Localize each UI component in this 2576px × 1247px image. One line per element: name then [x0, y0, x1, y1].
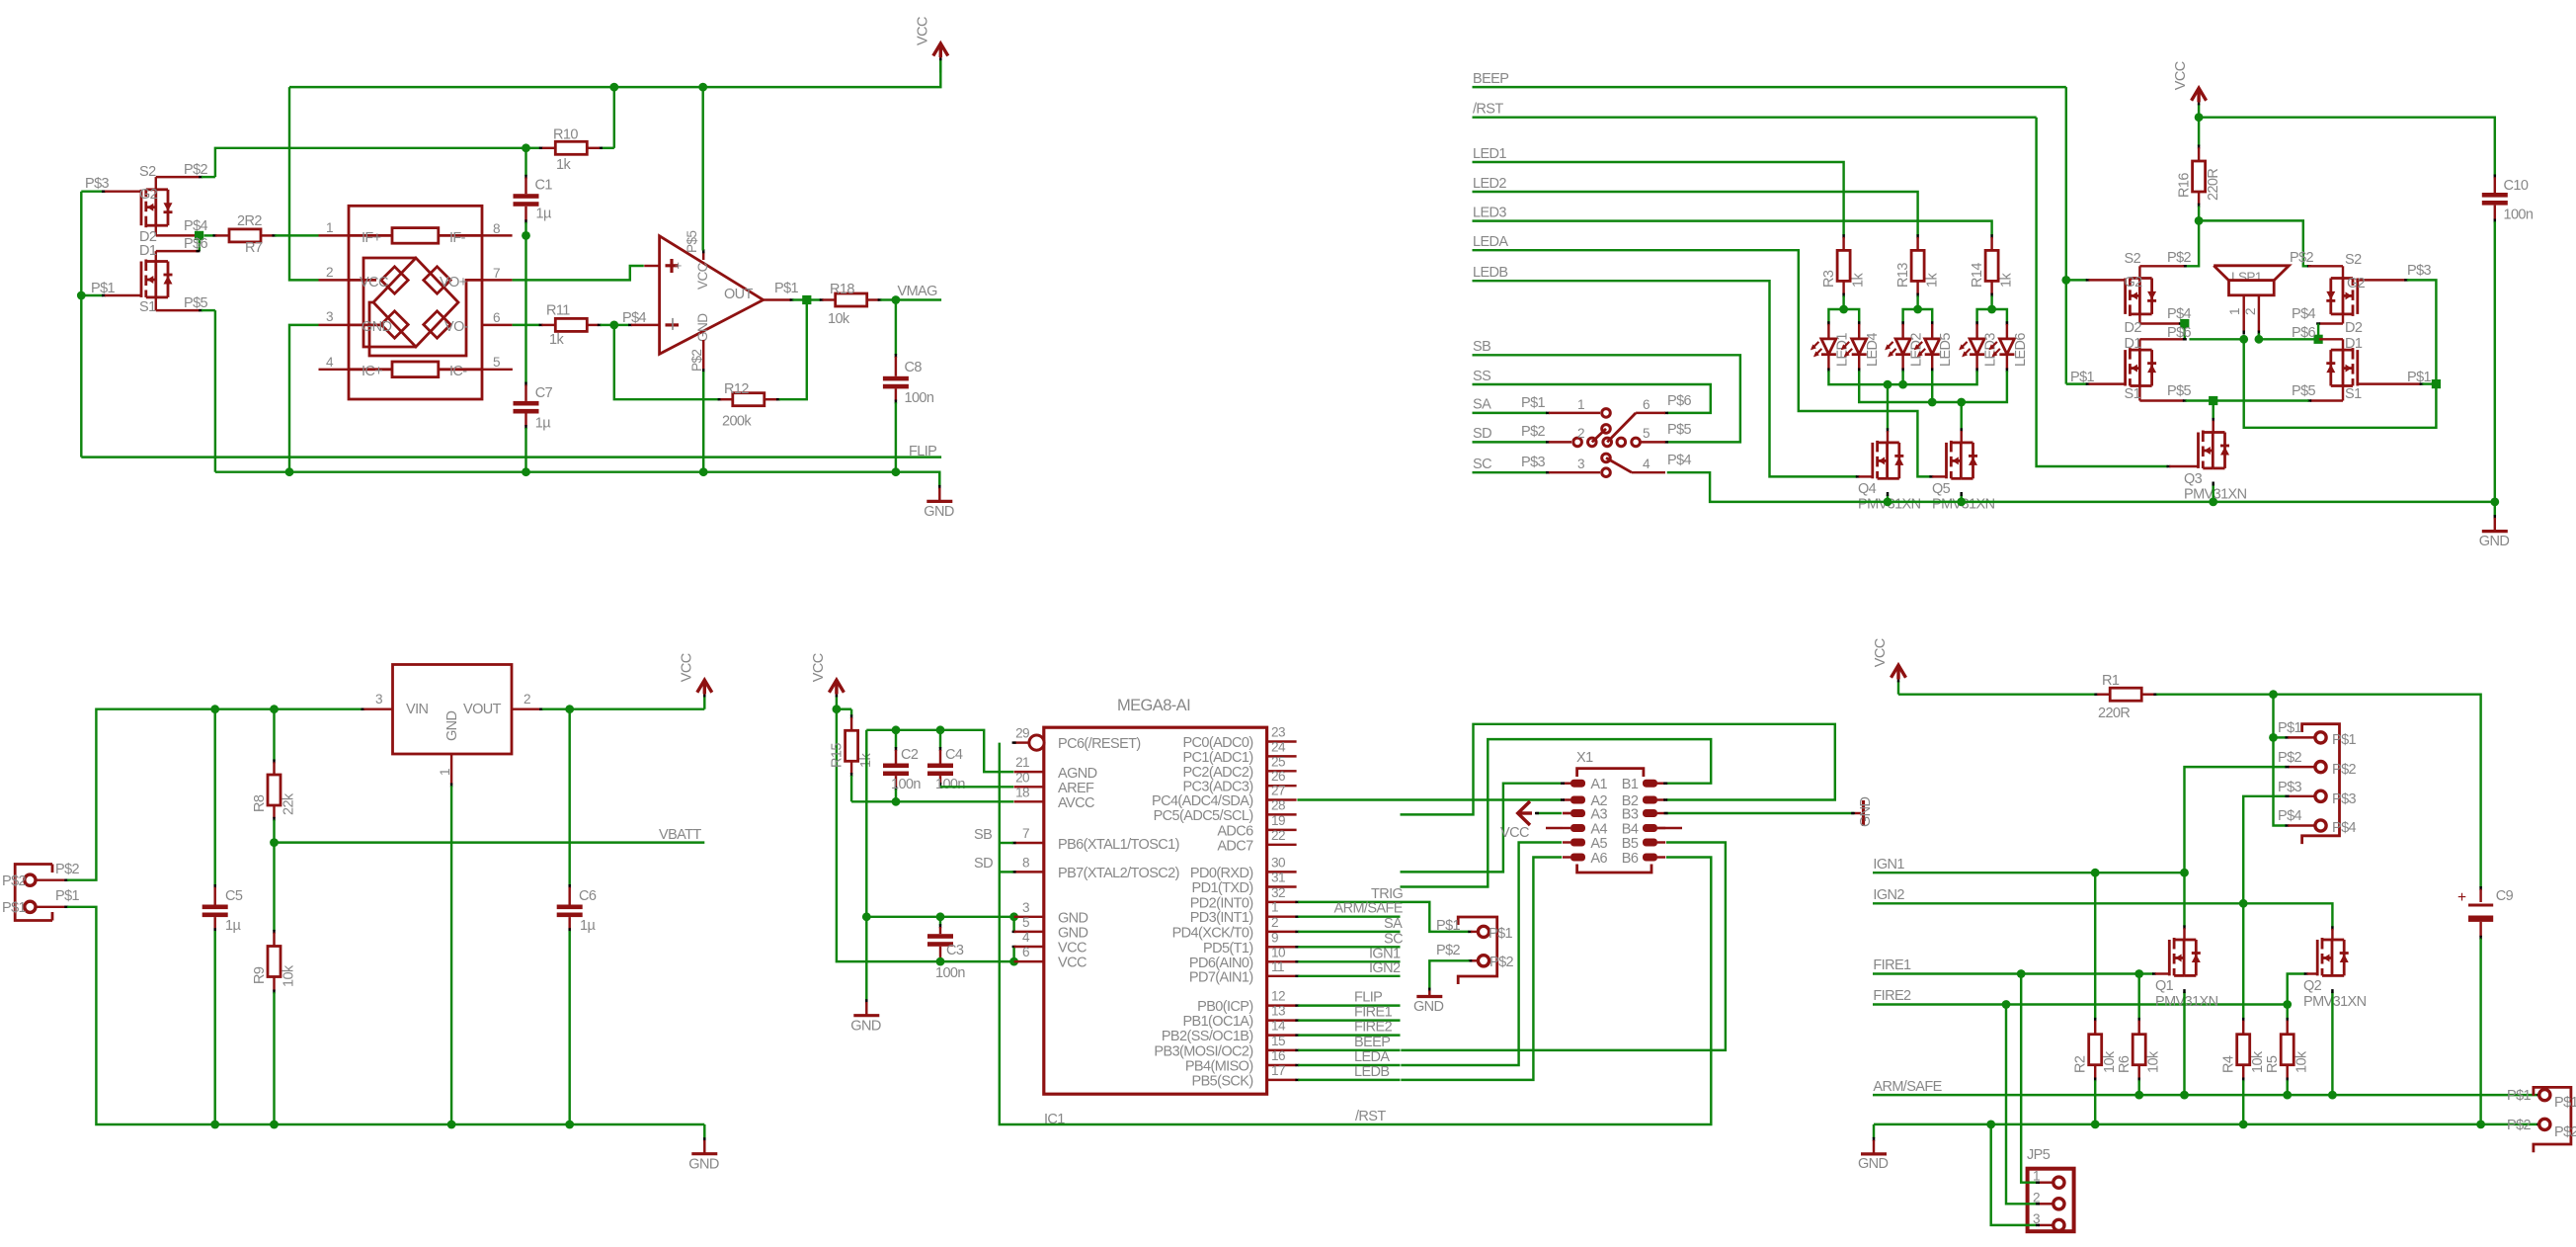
junction	[1839, 305, 1848, 314]
junction	[447, 1121, 456, 1129]
svg-text:P$4: P$4	[622, 310, 647, 326]
svg-text:P$1: P$1	[1521, 395, 1546, 411]
svg-text:P$1: P$1	[1436, 918, 1461, 934]
wire S2/R10 net	[215, 87, 614, 177]
svg-text:S1: S1	[2345, 386, 2362, 402]
svg-text:3: 3	[1577, 457, 1584, 471]
resistor R9	[252, 843, 297, 1124]
svg-text:PMV31XN: PMV31XN	[2155, 994, 2218, 1010]
svg-text:2: 2	[2243, 308, 2258, 315]
connector output P$1/P$2	[2507, 1087, 2576, 1152]
wire op-amp GND to rail	[702, 372, 704, 472]
svg-text:100n: 100n	[891, 777, 921, 792]
svg-text:21: 21	[1015, 755, 1029, 770]
svg-text:PC1(ADC1): PC1(ADC1)	[1182, 750, 1252, 766]
junction	[2017, 969, 2026, 978]
junction	[833, 705, 842, 713]
wire GND net bottom	[1874, 1123, 2540, 1125]
transistor pair right lower	[2214, 325, 2432, 402]
wire op-amp - input	[614, 310, 660, 326]
resistor R14	[1970, 237, 2015, 309]
wire IGN2 net	[1873, 887, 2332, 930]
svg-text:P$2: P$2	[1521, 424, 1546, 440]
svg-text:P$2: P$2	[2278, 750, 2302, 766]
svg-text:VMAG: VMAG	[898, 284, 938, 299]
switch S1 DPDT	[1521, 393, 1692, 477]
junction	[2239, 335, 2248, 344]
svg-text:GND: GND	[362, 319, 392, 335]
LED LED6	[1988, 321, 2028, 372]
svg-text:GND: GND	[695, 313, 710, 342]
svg-text:P$2: P$2	[2554, 1124, 2576, 1140]
wire AVCC row	[851, 800, 1013, 802]
wire Q3 source	[2212, 482, 2214, 502]
power VCC symbol power section	[679, 653, 712, 708]
svg-text:P$3: P$3	[85, 176, 110, 192]
svg-text:3: 3	[1022, 900, 1029, 915]
svg-text:+: +	[2457, 889, 2466, 906]
wire FLIP rail	[81, 444, 941, 459]
svg-text:27: 27	[1271, 784, 1285, 798]
junction	[2283, 1091, 2292, 1100]
junction	[2490, 498, 2499, 507]
svg-text:4: 4	[1643, 457, 1650, 471]
junction	[565, 1121, 574, 1129]
junction	[270, 838, 279, 847]
svg-text:Q2: Q2	[2303, 978, 2322, 994]
svg-text:LED2: LED2	[1473, 176, 1506, 192]
svg-text:SB: SB	[1473, 339, 1490, 355]
wire Q1 drain lead	[2183, 873, 2185, 940]
svg-text:PD0(RXD): PD0(RXD)	[1190, 866, 1253, 881]
ground GND symbol MCU	[850, 986, 881, 1034]
svg-text:PD2(INT0): PD2(INT0)	[1190, 895, 1253, 911]
svg-text:8: 8	[1022, 855, 1029, 870]
wire TRIG stub	[1295, 886, 1403, 902]
svg-text:R5: R5	[2265, 1055, 2281, 1073]
speaker LSP	[2214, 266, 2289, 335]
junction	[2255, 335, 2264, 344]
wire P$4 to GND rail	[1667, 472, 2495, 502]
connector header P$1-P$4	[2278, 720, 2357, 844]
junction	[210, 705, 219, 713]
svg-text:P$2: P$2	[2290, 250, 2314, 266]
wire JP5 pin2	[2006, 1005, 2040, 1205]
junction	[2432, 379, 2441, 388]
svg-text:FIRE2: FIRE2	[1354, 1020, 1393, 1036]
svg-text:GND: GND	[2479, 534, 2510, 549]
svg-text:LEDA: LEDA	[1354, 1049, 1390, 1065]
wire right pair S2 to R16	[2199, 220, 2343, 266]
wire P$2 to GND	[1429, 960, 1469, 991]
svg-text:A3: A3	[1590, 807, 1607, 823]
svg-text:VCC: VCC	[811, 653, 827, 682]
wire SC stub	[1295, 931, 1403, 947]
svg-text:FLIP: FLIP	[909, 444, 936, 459]
svg-text:G2: G2	[2125, 275, 2143, 291]
svg-text:P$3: P$3	[1521, 455, 1546, 470]
transistor pair S1/S2 lower	[81, 176, 215, 315]
svg-text:P$1: P$1	[2507, 1088, 2532, 1104]
svg-text:PC5(ADC5/SCL): PC5(ADC5/SCL)	[1154, 808, 1253, 824]
wire JP5 pin3	[1991, 1124, 2040, 1225]
svg-text:GND: GND	[688, 1156, 719, 1172]
svg-text:R3: R3	[1821, 270, 1837, 288]
svg-text:200k: 200k	[722, 414, 752, 430]
svg-text:P$5: P$5	[1667, 422, 1692, 438]
wire header P$1 column	[2274, 695, 2290, 826]
wire LEDB stub	[1295, 1064, 1400, 1080]
svg-text:S2: S2	[139, 164, 156, 180]
wire LEDA stub	[1295, 1049, 1400, 1065]
svg-text:C7: C7	[535, 385, 553, 401]
svg-text:28: 28	[1271, 797, 1285, 812]
LED LED5	[1914, 321, 1955, 372]
svg-text:SC: SC	[1384, 931, 1403, 947]
wire B5 to BEEP	[1401, 843, 1726, 1050]
svg-text:VO-: VO-	[444, 319, 469, 335]
junction	[2269, 733, 2278, 742]
connector P$1/P$2 MCU	[1436, 917, 1514, 984]
wire /RST net	[1000, 743, 1712, 1124]
svg-text:P$4: P$4	[2332, 820, 2357, 836]
svg-text:Q3: Q3	[2184, 471, 2203, 487]
svg-text:VCC: VCC	[1058, 941, 1087, 956]
junction	[1884, 380, 1892, 389]
wire R12 to output	[779, 300, 807, 400]
svg-text:PD4(XCK/T0): PD4(XCK/T0)	[1172, 925, 1253, 941]
svg-text:Q5: Q5	[1932, 481, 1951, 497]
svg-text:1: 1	[438, 769, 452, 776]
wire LED anode pair	[1903, 309, 1933, 324]
svg-text:P$3: P$3	[2407, 263, 2432, 279]
transistor Q3 PMV31XN	[2184, 431, 2247, 503]
wire LED group A cathodes	[1828, 371, 1976, 384]
svg-text:P$1: P$1	[55, 888, 80, 904]
svg-text:29: 29	[1015, 726, 1029, 741]
svg-text:A1: A1	[1590, 777, 1607, 792]
svg-text:R9: R9	[252, 966, 268, 984]
transistor Q1 PMV31XN	[2155, 938, 2218, 1010]
svg-text:PC0(ADC0): PC0(ADC0)	[1182, 735, 1252, 751]
transistor Q2 PMV31XN	[2303, 938, 2367, 1010]
LED LED1	[1811, 321, 1851, 372]
wire pin30 to A1	[1401, 784, 1566, 873]
svg-text:P$2: P$2	[2167, 250, 2192, 266]
junction	[2091, 1121, 2100, 1129]
wire B3 to GND	[1664, 796, 1874, 827]
junction	[2002, 1000, 2011, 1009]
svg-text:10k: 10k	[2294, 1050, 2310, 1073]
junction	[1986, 1121, 1995, 1129]
svg-text:SD: SD	[1473, 426, 1491, 442]
wire VCC to R1	[1898, 693, 2111, 695]
svg-text:VCC: VCC	[679, 653, 694, 682]
junction	[802, 295, 811, 304]
svg-text:P$3: P$3	[2332, 791, 2357, 807]
svg-text:IF-: IF-	[449, 230, 466, 246]
svg-text:OUT: OUT	[724, 287, 754, 302]
ground GND symbol	[924, 472, 954, 520]
junction	[699, 467, 708, 476]
junction	[892, 467, 901, 476]
svg-text:23: 23	[1271, 725, 1285, 740]
svg-text:P$1: P$1	[774, 281, 799, 296]
svg-text:PD7(AIN1): PD7(AIN1)	[1189, 969, 1253, 985]
svg-text:8: 8	[493, 221, 500, 236]
junction	[609, 83, 618, 92]
svg-text:7: 7	[493, 266, 500, 281]
svg-text:1k: 1k	[549, 332, 564, 348]
junction	[2134, 969, 2143, 978]
svg-text:P$1: P$1	[91, 281, 116, 296]
svg-text:P$5: P$5	[684, 231, 699, 253]
resistor R16	[2177, 118, 2222, 221]
svg-text:17: 17	[1271, 1063, 1285, 1078]
svg-text:C4: C4	[945, 747, 963, 763]
svg-text:3: 3	[2033, 1211, 2040, 1226]
capacitor C4	[927, 730, 965, 792]
wire AGND column to GND	[865, 730, 867, 917]
wire R12 feedback net	[614, 325, 733, 399]
ground GND symbol power	[688, 1124, 719, 1172]
svg-text:IGN1: IGN1	[1873, 857, 1904, 873]
svg-text:PB0(ICP): PB0(ICP)	[1197, 999, 1252, 1015]
svg-text:R12: R12	[724, 381, 749, 397]
connector X1	[1546, 750, 1682, 873]
svg-text:PB3(MOSI/OC2): PB3(MOSI/OC2)	[1154, 1043, 1252, 1059]
svg-text:GND: GND	[1413, 999, 1444, 1015]
svg-text:VCC: VCC	[1873, 638, 1889, 667]
svg-text:S2: S2	[2345, 252, 2362, 268]
svg-text:6: 6	[1643, 397, 1650, 412]
svg-text:VCC: VCC	[695, 262, 710, 290]
wire JP5 pin1	[2021, 974, 2040, 1183]
junction	[1987, 305, 1996, 314]
wire TRIG to P$1	[1401, 902, 1473, 932]
junction	[892, 725, 901, 734]
svg-text:2: 2	[1577, 426, 1584, 441]
svg-text:IGN2: IGN2	[1873, 887, 1904, 903]
svg-text:2: 2	[326, 265, 333, 280]
junction	[270, 1121, 279, 1129]
wire VCC pin4 stub	[1012, 947, 1016, 961]
power VCC symbol right	[2173, 61, 2207, 117]
junction	[2061, 276, 2070, 285]
svg-text:C3: C3	[946, 943, 964, 958]
svg-text:R1: R1	[2102, 673, 2120, 689]
svg-text:VOUT: VOUT	[463, 702, 502, 717]
wire GND corner symbol	[1858, 1124, 1889, 1172]
wire pin31 to B1	[1401, 739, 1712, 886]
junction	[1009, 912, 1018, 921]
svg-text:A6: A6	[1590, 851, 1607, 867]
wire BEEP stub	[1295, 1035, 1400, 1050]
junction	[2239, 1121, 2248, 1129]
wire battery minus	[67, 907, 703, 1124]
svg-text:9: 9	[1271, 930, 1278, 945]
junction	[892, 295, 901, 304]
svg-text:Q4: Q4	[1858, 481, 1877, 497]
wire GND pins row	[866, 916, 1013, 918]
svg-text:3: 3	[326, 309, 333, 324]
capacitor C1	[514, 148, 553, 236]
ground GND symbol right	[2479, 502, 2510, 549]
svg-text:PC6(/RESET): PC6(/RESET)	[1058, 736, 1141, 752]
junction	[609, 321, 618, 330]
svg-text:X1: X1	[1576, 750, 1593, 766]
svg-text:100n: 100n	[935, 777, 965, 792]
junction	[2239, 899, 2248, 908]
svg-text:P$2: P$2	[2, 873, 27, 889]
svg-text:1µ: 1µ	[535, 416, 551, 432]
svg-text:PMV31XN: PMV31XN	[2303, 994, 2367, 1010]
wire right gates cross-couple	[2244, 280, 2437, 427]
svg-text:4: 4	[326, 355, 334, 370]
svg-text:D2: D2	[2125, 320, 2142, 336]
svg-text:PB7(XTAL2/TOSC2): PB7(XTAL2/TOSC2)	[1058, 866, 1179, 881]
svg-text:P$2: P$2	[2332, 762, 2357, 778]
svg-text:BEEP: BEEP	[1354, 1035, 1390, 1050]
connector battery P$2/P$1	[2, 862, 80, 921]
wire output node	[792, 298, 806, 300]
svg-text:D1: D1	[2345, 336, 2363, 352]
svg-text:P$2: P$2	[689, 350, 704, 372]
wire FIRE2 to Q2 gate	[2288, 974, 2317, 1005]
svg-text:C5: C5	[225, 888, 243, 904]
svg-text:R8: R8	[252, 794, 268, 812]
junction	[2134, 1091, 2143, 1100]
wire AGND top rail	[866, 730, 1013, 772]
svg-text:P$5: P$5	[2167, 383, 2192, 399]
svg-text:ADC6: ADC6	[1217, 823, 1253, 839]
junction	[77, 291, 86, 300]
wire FIRE1 net	[1873, 957, 2169, 974]
svg-text:LEDA: LEDA	[1473, 234, 1508, 250]
svg-text:1k: 1k	[1999, 273, 2015, 288]
svg-text:P$2: P$2	[2507, 1118, 2532, 1133]
svg-text:ARM/SAFE: ARM/SAFE	[1334, 901, 1404, 917]
resistor R7 2R2	[204, 213, 319, 256]
wire VBATT net	[275, 827, 705, 843]
svg-text:GND: GND	[850, 1018, 881, 1034]
wire Q4 drain	[1887, 384, 1889, 443]
svg-text:FIRE1: FIRE1	[1873, 957, 1911, 973]
svg-text:C2: C2	[901, 747, 919, 763]
junction	[1957, 398, 1966, 407]
svg-text:P$6: P$6	[1667, 393, 1692, 409]
svg-text:AVCC: AVCC	[1058, 795, 1094, 811]
wire VCC to C10	[2199, 118, 2495, 179]
resistor R10	[542, 127, 600, 174]
wire A6 to LEDB	[1401, 858, 1562, 1080]
LED LED3	[1959, 321, 1999, 372]
svg-text:PC4(ADC4/SDA): PC4(ADC4/SDA)	[1152, 793, 1253, 809]
wire SS net	[1473, 369, 1711, 413]
power VCC symbol igniter	[1873, 638, 1906, 694]
svg-text:1: 1	[2227, 308, 2242, 315]
junction	[936, 957, 945, 966]
svg-text:GND: GND	[1058, 926, 1088, 942]
junction	[270, 705, 279, 713]
svg-text:JP5: JP5	[2027, 1147, 2051, 1163]
LED LED2	[1885, 321, 1925, 372]
svg-text:2: 2	[2033, 1190, 2040, 1205]
svg-text:P$1: P$1	[1489, 926, 1513, 942]
wire LED5 cathode stub	[1931, 371, 1933, 402]
svg-text:10k: 10k	[828, 311, 850, 327]
svg-text:R4: R4	[2221, 1055, 2237, 1073]
junction	[2180, 319, 2189, 328]
svg-text:13: 13	[1271, 1004, 1285, 1019]
svg-text:P$1: P$1	[2, 900, 27, 916]
svg-text:GND: GND	[924, 504, 954, 520]
svg-text:14: 14	[1271, 1019, 1286, 1034]
capacitor C6	[557, 709, 597, 1124]
connector JP5	[2027, 1147, 2074, 1231]
svg-text:16: 16	[1271, 1048, 1285, 1063]
svg-text:LED6: LED6	[2013, 333, 2029, 367]
junction	[2328, 1091, 2337, 1100]
wire FIRE2 stub	[1295, 1020, 1400, 1036]
wire Q4 source	[1887, 492, 1889, 502]
svg-text:VCC: VCC	[360, 275, 388, 291]
svg-text:LED2: LED2	[1909, 333, 1925, 367]
junction	[195, 231, 203, 240]
junction	[2180, 1091, 2189, 1100]
junction	[2209, 396, 2217, 405]
svg-text:LED4: LED4	[1865, 333, 1881, 367]
wire LEDA net	[1473, 234, 1934, 476]
junction	[522, 143, 530, 152]
svg-text:D2: D2	[2345, 320, 2363, 336]
svg-text:SB: SB	[974, 827, 992, 843]
op-amp U2	[660, 231, 799, 374]
svg-text:5: 5	[1643, 426, 1650, 441]
svg-text:PD5(T1): PD5(T1)	[1203, 941, 1253, 956]
svg-text:1: 1	[326, 220, 333, 235]
wire ARM/SAFE net	[1873, 1079, 2540, 1095]
junction	[698, 83, 707, 92]
svg-text:1µ: 1µ	[580, 918, 596, 934]
svg-text:VCC: VCC	[915, 17, 930, 45]
svg-text:A5: A5	[1590, 836, 1607, 852]
svg-text:ARM/SAFE: ARM/SAFE	[1873, 1079, 1942, 1095]
svg-text:32: 32	[1271, 885, 1285, 900]
svg-text:100n: 100n	[905, 390, 934, 406]
svg-text:6: 6	[493, 310, 500, 325]
svg-text:2: 2	[1271, 915, 1278, 930]
svg-text:10: 10	[1271, 945, 1286, 959]
wire bottom rail to GND	[702, 1123, 705, 1125]
svg-text:VIN: VIN	[406, 702, 428, 717]
svg-text:SA: SA	[1384, 916, 1403, 932]
wire R1 to header and C9	[2156, 695, 2480, 890]
svg-text:S1: S1	[139, 299, 156, 315]
svg-text:R7: R7	[245, 240, 263, 256]
wire /RST top	[1473, 102, 2037, 118]
wire VOUT to VCC	[542, 707, 704, 709]
wire IGN1 stub	[1295, 946, 1401, 961]
wire FIRE2 net	[1873, 988, 2288, 1005]
wire Q5 drain	[1960, 402, 1962, 443]
svg-text:3: 3	[375, 692, 382, 707]
svg-text:P$4: P$4	[1667, 453, 1692, 468]
svg-text:IF+: IF+	[362, 230, 381, 246]
wire SA net	[1473, 397, 1551, 413]
junction	[1957, 498, 1966, 507]
svg-text:100n: 100n	[2504, 208, 2534, 223]
